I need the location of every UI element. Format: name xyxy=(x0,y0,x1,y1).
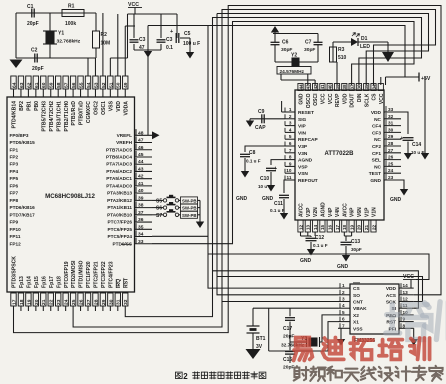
svg-text:SW-PB: SW-PB xyxy=(182,198,197,203)
svg-text:SCLK: SCLK xyxy=(364,93,370,107)
svg-text:FP6: FP6 xyxy=(10,183,19,188)
svg-text:S7: S7 xyxy=(156,213,162,219)
svg-text:26: 26 xyxy=(78,299,84,305)
svg-text:39: 39 xyxy=(138,195,144,201)
svg-text:PTC7/FP26: PTC7/FP26 xyxy=(108,220,133,225)
svg-text:Fp16: Fp16 xyxy=(41,276,47,288)
svg-text:PTB5/T2CH3: PTB5/T2CH3 xyxy=(41,101,47,132)
svg-text:C5: C5 xyxy=(184,31,191,37)
svg-text:1: 1 xyxy=(342,283,345,288)
svg-text:17: 17 xyxy=(335,224,340,230)
svg-text:2: 2 xyxy=(183,372,188,381)
svg-text:GND: GND xyxy=(300,258,312,264)
svg-text:MC68HC908LJ12: MC68HC908LJ12 xyxy=(45,193,95,200)
svg-text:PTB4/T2CH2: PTB4/T2CH2 xyxy=(49,101,55,132)
svg-text:29: 29 xyxy=(388,134,394,139)
svg-text:GND: GND xyxy=(262,196,274,202)
svg-text:C13: C13 xyxy=(351,239,360,245)
svg-text:V4N: V4N xyxy=(335,207,341,217)
svg-text:C3: C3 xyxy=(166,37,173,43)
svg-text:0.1 u F: 0.1 u F xyxy=(246,159,261,164)
svg-text:32: 32 xyxy=(388,114,394,119)
svg-text:FP9: FP9 xyxy=(10,220,19,225)
svg-text:40: 40 xyxy=(328,84,333,90)
svg-text:X1: X1 xyxy=(353,320,359,326)
svg-text:30: 30 xyxy=(108,299,114,305)
svg-text:VCC: VCC xyxy=(321,93,327,104)
svg-text:49: 49 xyxy=(123,82,129,88)
svg-text:38: 38 xyxy=(342,84,347,90)
svg-text:46: 46 xyxy=(138,145,144,151)
svg-text:100k: 100k xyxy=(65,21,76,27)
svg-text:22: 22 xyxy=(49,299,55,305)
svg-text:C11: C11 xyxy=(274,201,283,207)
svg-text:20pF: 20pF xyxy=(27,21,39,27)
svg-text:PTD4/KB14: PTD4/KB14 xyxy=(12,101,18,129)
svg-text:0.1 u F: 0.1 u F xyxy=(270,208,285,213)
svg-text:CS: CS xyxy=(353,286,360,292)
svg-text:14: 14 xyxy=(313,224,318,230)
svg-text:41: 41 xyxy=(138,181,144,187)
svg-text:27: 27 xyxy=(388,148,394,153)
svg-text:8: 8 xyxy=(403,323,406,328)
svg-text:R2: R2 xyxy=(101,32,108,38)
svg-text:44: 44 xyxy=(298,84,303,90)
svg-text:PTD2/MOSI: PTD2/MOSI xyxy=(71,260,77,288)
svg-text:V3N: V3N xyxy=(298,151,308,157)
svg-text:12: 12 xyxy=(298,224,303,230)
svg-text:24: 24 xyxy=(64,299,70,305)
svg-text:SO: SO xyxy=(353,293,360,299)
svg-text:17: 17 xyxy=(11,299,17,305)
svg-text:43: 43 xyxy=(138,166,144,172)
svg-text:C10: C10 xyxy=(260,176,269,182)
svg-text:PTA0/KB10: PTA0/KB10 xyxy=(107,212,132,217)
svg-text:VSN: VSN xyxy=(298,171,308,177)
svg-text:FP1: FP1 xyxy=(10,147,19,152)
svg-text:R1: R1 xyxy=(68,4,75,10)
svg-text:OSC1: OSC1 xyxy=(101,101,107,115)
svg-text:V1P: V1P xyxy=(364,207,370,217)
svg-text:PTB7/ADC5: PTB7/ADC5 xyxy=(106,147,132,152)
svg-text:PTB2/T1CH0: PTB2/T1CH0 xyxy=(64,101,70,132)
svg-text:47: 47 xyxy=(138,138,144,144)
svg-text:23: 23 xyxy=(56,299,62,305)
svg-text:PTC4/FP23: PTC4/FP23 xyxy=(108,261,114,288)
svg-text:VCC: VCC xyxy=(328,93,334,104)
svg-text:33: 33 xyxy=(388,107,394,112)
svg-text:51: 51 xyxy=(108,82,114,88)
svg-text:V1N: V1N xyxy=(372,207,378,217)
svg-text:3: 3 xyxy=(289,121,292,126)
svg-text:NC: NC xyxy=(374,137,381,143)
svg-text:CS: CS xyxy=(372,93,378,101)
svg-text:C3: C3 xyxy=(139,37,146,43)
svg-text:34: 34 xyxy=(138,232,144,238)
svg-text:VDDA: VDDA xyxy=(123,101,129,116)
svg-text:V3P: V3P xyxy=(298,144,308,150)
svg-text:VREFH: VREFH xyxy=(116,140,133,145)
svg-text:PTA5/ADC1: PTA5/ADC1 xyxy=(106,176,132,181)
svg-text:10M: 10M xyxy=(101,41,111,47)
svg-text:VDD: VDD xyxy=(342,93,348,104)
svg-text:10: 10 xyxy=(286,168,292,173)
svg-text:3: 3 xyxy=(342,297,345,302)
svg-text:VIP: VIP xyxy=(298,124,307,130)
svg-text:30: 30 xyxy=(388,127,394,132)
svg-text:55: 55 xyxy=(78,82,84,88)
svg-text:42: 42 xyxy=(138,174,144,180)
svg-text:REFCAP: REFCAP xyxy=(298,137,319,143)
svg-text:39: 39 xyxy=(335,84,340,90)
svg-text:FP8: FP8 xyxy=(10,198,19,203)
svg-text:AVCC: AVCC xyxy=(299,203,305,217)
svg-text:32: 32 xyxy=(123,299,129,305)
svg-text:FP10: FP10 xyxy=(10,227,22,232)
svg-text:30pF: 30pF xyxy=(351,247,362,252)
svg-text:REFOUT: REFOUT xyxy=(298,178,318,184)
svg-text:NC: NC xyxy=(374,164,381,170)
svg-text:C9: C9 xyxy=(258,109,265,115)
svg-text:20pF: 20pF xyxy=(283,334,294,340)
svg-text:6: 6 xyxy=(342,317,345,322)
svg-text:38: 38 xyxy=(138,203,144,209)
svg-text:+: + xyxy=(170,29,173,35)
svg-text:D1: D1 xyxy=(361,36,368,42)
svg-text:PTD3/SPSCK: PTD3/SPSCK xyxy=(12,256,18,288)
svg-text:PTA4/ADC0: PTA4/ADC0 xyxy=(106,183,132,188)
svg-text:CF1: CF1 xyxy=(372,151,381,157)
svg-text:V6N: V6N xyxy=(357,207,363,217)
svg-text:FP3: FP3 xyxy=(10,162,19,167)
svg-text:PTB1/RxD: PTB1/RxD xyxy=(71,101,77,126)
svg-text:5: 5 xyxy=(289,134,292,139)
svg-text:0.1: 0.1 xyxy=(166,45,173,51)
svg-text:VDD: VDD xyxy=(371,110,382,116)
svg-text:31: 31 xyxy=(116,299,122,305)
svg-text:34: 34 xyxy=(371,84,376,90)
svg-text:GND: GND xyxy=(299,93,305,105)
svg-text:PTC2/FP21: PTC2/FP21 xyxy=(94,261,100,288)
svg-text:PTA2/KB12: PTA2/KB12 xyxy=(107,198,132,203)
svg-text:C2: C2 xyxy=(31,48,38,54)
svg-text:20pF: 20pF xyxy=(283,365,294,371)
svg-text:C7: C7 xyxy=(305,40,312,46)
svg-text:VBAK: VBAK xyxy=(353,306,367,312)
svg-text:X2: X2 xyxy=(353,313,359,319)
svg-text:GND: GND xyxy=(236,196,248,202)
svg-text:48: 48 xyxy=(138,130,144,136)
svg-text:PTA3/KB13: PTA3/KB13 xyxy=(107,191,132,196)
svg-text:58: 58 xyxy=(56,82,62,88)
svg-text:24: 24 xyxy=(388,168,394,173)
svg-text:41: 41 xyxy=(320,84,325,90)
svg-text:C1: C1 xyxy=(27,4,34,10)
svg-text:PTC6/FP25: PTC6/FP25 xyxy=(108,227,133,232)
svg-text:+: + xyxy=(400,136,403,142)
svg-text:CNT: CNT xyxy=(353,300,363,306)
svg-text:RESET: RESET xyxy=(298,110,314,116)
svg-text:FP11: FP11 xyxy=(10,234,21,239)
svg-text:ACS: ACS xyxy=(386,293,397,299)
svg-text:AGND: AGND xyxy=(321,202,327,217)
svg-text:28: 28 xyxy=(388,141,394,146)
svg-text:13: 13 xyxy=(306,224,311,230)
svg-text:Fp18: Fp18 xyxy=(56,276,62,288)
svg-text:GND: GND xyxy=(337,264,349,270)
svg-text:2: 2 xyxy=(289,114,292,119)
svg-text:20: 20 xyxy=(357,224,362,230)
svg-text:5: 5 xyxy=(342,310,345,315)
svg-text:VCC: VCC xyxy=(379,93,385,104)
svg-text:FP12: FP12 xyxy=(10,241,22,246)
svg-text:23: 23 xyxy=(388,175,394,180)
svg-text:SIG: SIG xyxy=(298,117,307,123)
svg-text:S5: S5 xyxy=(156,198,162,204)
svg-text:19: 19 xyxy=(349,224,354,230)
svg-text:25: 25 xyxy=(71,299,77,305)
svg-text:33: 33 xyxy=(138,239,144,245)
svg-text:GND: GND xyxy=(370,178,381,184)
svg-text:PTD5/KB15: PTD5/KB15 xyxy=(10,140,36,145)
svg-text:25: 25 xyxy=(388,161,394,166)
svg-text:CAP: CAP xyxy=(255,125,266,131)
svg-text:59: 59 xyxy=(49,82,55,88)
svg-text:VSS: VSS xyxy=(353,326,363,332)
svg-text:32.768kHz: 32.768kHz xyxy=(57,39,81,45)
svg-text:31: 31 xyxy=(388,121,394,126)
svg-text:Fp17: Fp17 xyxy=(49,276,55,288)
svg-text:PTB3/T1CH1: PTB3/T1CH1 xyxy=(56,101,62,132)
svg-text:53: 53 xyxy=(93,82,99,88)
svg-text:VSP: VSP xyxy=(298,164,308,170)
svg-text:24.576MHz: 24.576MHz xyxy=(280,69,305,75)
svg-text:C17: C17 xyxy=(283,326,292,332)
svg-text:PTC5/FP24: PTC5/FP24 xyxy=(108,234,133,239)
svg-text:26: 26 xyxy=(388,155,394,160)
svg-text:Fp15: Fp15 xyxy=(34,276,40,288)
svg-text:57: 57 xyxy=(64,82,70,88)
svg-text:18: 18 xyxy=(342,224,347,230)
svg-text:30pF: 30pF xyxy=(304,47,315,53)
svg-text:LED: LED xyxy=(360,44,370,50)
svg-text:PTD1/MISO: PTD1/MISO xyxy=(79,261,85,288)
svg-text:36: 36 xyxy=(138,217,144,223)
svg-text:NC: NC xyxy=(374,117,381,123)
svg-text:VDD: VDD xyxy=(116,101,122,112)
svg-text:AVCC: AVCC xyxy=(342,203,348,217)
svg-text:SW-PB: SW-PB xyxy=(182,206,197,211)
svg-text:20: 20 xyxy=(34,299,40,305)
svg-text:AGND: AGND xyxy=(298,158,313,164)
svg-text:RST: RST xyxy=(123,277,129,288)
svg-text:C16: C16 xyxy=(283,357,292,363)
svg-text:SW-PB: SW-PB xyxy=(182,213,197,218)
svg-text:GND: GND xyxy=(390,197,402,203)
svg-text:Y1: Y1 xyxy=(58,31,64,37)
svg-text:FP5: FP5 xyxy=(10,176,19,181)
svg-text:29: 29 xyxy=(101,299,107,305)
svg-text:4: 4 xyxy=(342,303,345,308)
svg-text:SEL: SEL xyxy=(372,158,381,164)
svg-text:S6: S6 xyxy=(156,206,162,212)
svg-text:TEST: TEST xyxy=(369,171,381,177)
svg-text:V2N: V2N xyxy=(313,207,319,217)
svg-text:CF2: CF2 xyxy=(372,144,381,150)
svg-text:64: 64 xyxy=(11,82,17,88)
svg-text:7: 7 xyxy=(289,148,292,153)
svg-text:PTB6/ADC4: PTB6/ADC4 xyxy=(106,154,132,159)
svg-text:9: 9 xyxy=(289,161,292,166)
svg-text:PTA7/ADC3: PTA7/ADC3 xyxy=(106,162,132,167)
svg-text:PTD0/SS: PTD0/SS xyxy=(112,241,132,246)
svg-text:52: 52 xyxy=(101,82,107,88)
svg-text:21: 21 xyxy=(41,299,47,305)
svg-text:PB0: PB0 xyxy=(34,101,40,111)
svg-text:IRQ: IRQ xyxy=(116,279,122,288)
svg-text:VSS: VSS xyxy=(108,100,114,111)
svg-text:44: 44 xyxy=(138,159,144,165)
svg-text:PTC1/FP20: PTC1/FP20 xyxy=(86,261,92,288)
svg-text:20pF: 20pF xyxy=(32,66,44,72)
svg-text:61: 61 xyxy=(34,82,40,88)
svg-text:FP4: FP4 xyxy=(10,169,19,174)
svg-text:FP7: FP7 xyxy=(10,191,19,196)
svg-text:PTA6/ADC2: PTA6/ADC2 xyxy=(106,169,132,174)
svg-text:35: 35 xyxy=(364,84,369,90)
svg-text:PTA1/KB11: PTA1/KB11 xyxy=(107,205,132,210)
svg-text:DOUT: DOUT xyxy=(350,94,356,108)
svg-text:CF3: CF3 xyxy=(372,130,381,136)
svg-text:16: 16 xyxy=(328,224,333,230)
svg-text:36: 36 xyxy=(357,84,362,90)
svg-text:+5V: +5V xyxy=(421,76,431,82)
svg-text:CGMXFC: CGMXFC xyxy=(86,101,92,123)
svg-text:37: 37 xyxy=(138,210,144,216)
svg-text:PTD7/KB17: PTD7/KB17 xyxy=(10,212,36,217)
svg-text:1: 1 xyxy=(289,107,292,112)
svg-text:Fp13: Fp13 xyxy=(19,276,25,288)
svg-text:FP2: FP2 xyxy=(10,154,19,159)
svg-text:DIN: DIN xyxy=(357,93,363,102)
svg-text:VREFL: VREFL xyxy=(117,133,133,138)
svg-text:PTC3/FP22: PTC3/FP22 xyxy=(101,261,107,288)
svg-text:22: 22 xyxy=(371,224,376,230)
svg-text:PTD6/KB16: PTD6/KB16 xyxy=(10,205,36,210)
svg-text:510: 510 xyxy=(338,55,347,61)
svg-text:PB1: PB1 xyxy=(27,101,33,111)
svg-text:15: 15 xyxy=(320,224,325,230)
svg-text:0.1 u F: 0.1 u F xyxy=(313,243,328,248)
svg-text:C12: C12 xyxy=(315,235,324,241)
svg-text:43: 43 xyxy=(306,84,311,90)
svg-text:V6P: V6P xyxy=(350,207,356,217)
svg-text:42: 42 xyxy=(313,84,318,90)
svg-text:100 u F: 100 u F xyxy=(183,41,200,47)
svg-text:BT1: BT1 xyxy=(256,336,266,342)
svg-text:OSC2: OSC2 xyxy=(94,101,100,115)
svg-text:REVP: REVP xyxy=(335,93,341,107)
svg-text:63: 63 xyxy=(19,82,25,88)
svg-text:12: 12 xyxy=(403,297,409,302)
svg-text:18: 18 xyxy=(19,299,25,305)
svg-text:C14: C14 xyxy=(412,142,421,148)
svg-text:4: 4 xyxy=(289,127,292,132)
svg-text:OSCI: OSCI xyxy=(313,93,319,106)
svg-text:11: 11 xyxy=(287,175,292,180)
svg-text:37: 37 xyxy=(349,84,354,90)
svg-text:14: 14 xyxy=(403,283,409,288)
svg-text:54: 54 xyxy=(86,82,92,88)
svg-text:FP0/BP3: FP0/BP3 xyxy=(10,133,29,138)
svg-text:60: 60 xyxy=(41,82,47,88)
svg-text:19: 19 xyxy=(26,299,32,305)
svg-text:21: 21 xyxy=(364,224,369,230)
svg-text:62: 62 xyxy=(26,82,32,88)
svg-text:BP2: BP2 xyxy=(19,101,25,111)
svg-text:56: 56 xyxy=(71,82,77,88)
svg-text:13: 13 xyxy=(403,290,409,295)
svg-text:R3: R3 xyxy=(338,47,345,53)
svg-text:40: 40 xyxy=(138,188,144,194)
svg-text:V3P: V3P xyxy=(306,207,312,217)
svg-text:8: 8 xyxy=(289,155,292,160)
svg-text:Fp14: Fp14 xyxy=(27,276,33,288)
svg-text:35: 35 xyxy=(138,224,144,230)
svg-text:CF4: CF4 xyxy=(372,124,381,130)
svg-text:V4P: V4P xyxy=(328,207,334,217)
svg-text:PTC0/FP19: PTC0/FP19 xyxy=(64,261,70,288)
svg-text:2: 2 xyxy=(342,290,345,295)
svg-text:VIN: VIN xyxy=(298,130,307,136)
svg-text:50: 50 xyxy=(116,82,122,88)
svg-text:C8: C8 xyxy=(249,150,256,156)
svg-text:7: 7 xyxy=(342,323,345,328)
svg-text:ATT7022B: ATT7022B xyxy=(325,151,355,157)
svg-text:28: 28 xyxy=(93,299,99,305)
svg-text:PTB0/TxD: PTB0/TxD xyxy=(79,101,85,125)
svg-text:27: 27 xyxy=(86,299,92,305)
svg-text:6: 6 xyxy=(289,141,292,146)
svg-text:VDD: VDD xyxy=(386,286,397,292)
svg-text:OSCO: OSCO xyxy=(306,93,312,108)
svg-text:C6: C6 xyxy=(282,40,289,46)
svg-text:45: 45 xyxy=(138,152,144,158)
